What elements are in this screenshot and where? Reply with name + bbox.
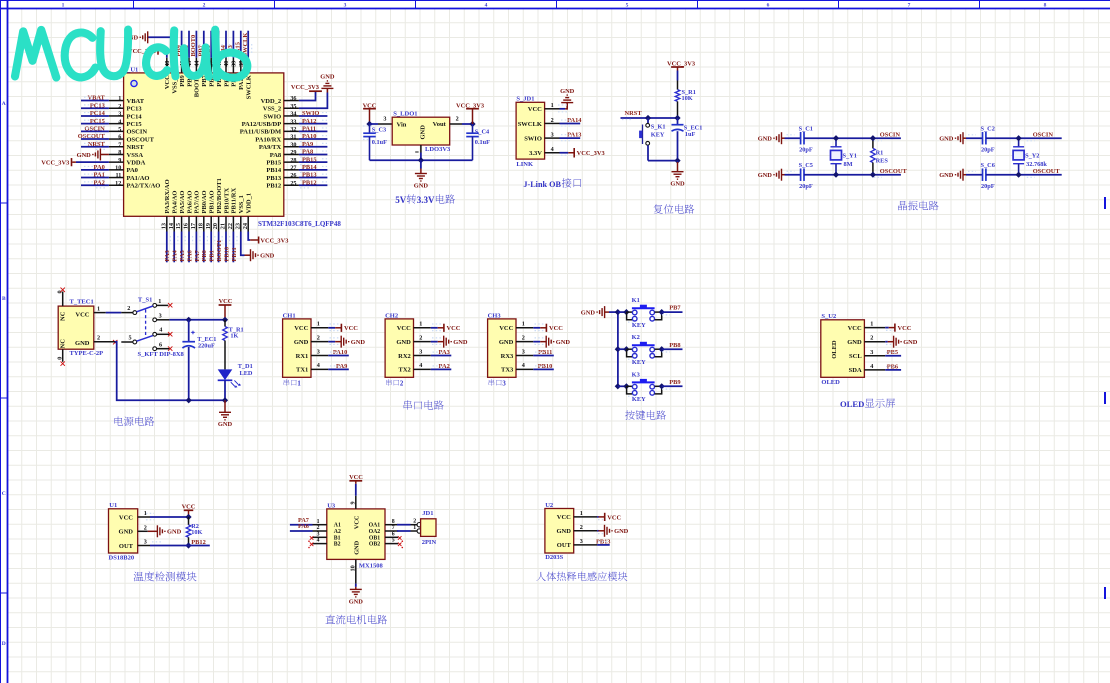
svg-text:PA12: PA12	[302, 118, 316, 125]
svg-text:6: 6	[767, 2, 770, 8]
svg-text:PA0: PA0	[127, 167, 138, 174]
svg-text:1: 1	[522, 321, 525, 328]
svg-text:30: 30	[290, 141, 296, 148]
svg-text:7: 7	[118, 141, 121, 148]
svg-text:CH1: CH1	[283, 312, 296, 319]
svg-text:4: 4	[551, 146, 554, 153]
svg-text:3: 3	[502, 380, 506, 387]
svg-text:OSCOUT: OSCOUT	[127, 136, 155, 143]
svg-text:GND: GND	[939, 136, 954, 143]
svg-text:OLED: OLED	[840, 399, 864, 409]
svg-text:35: 35	[290, 103, 296, 110]
svg-text:10: 10	[349, 565, 356, 571]
svg-text:VCC_3V3: VCC_3V3	[291, 84, 319, 91]
svg-text:39: 39	[231, 61, 238, 67]
svg-text:4: 4	[419, 362, 422, 369]
svg-text:PA12/USB/DP: PA12/USB/DP	[242, 121, 282, 128]
svg-text:BOOT1: BOOT1	[216, 240, 223, 262]
svg-text:220uF: 220uF	[198, 343, 215, 350]
svg-text:10K: 10K	[682, 95, 693, 102]
svg-text:16: 16	[183, 223, 190, 229]
svg-text:DS18B20: DS18B20	[109, 554, 135, 561]
svg-text:GND: GND	[396, 339, 411, 346]
svg-text:S_JD1: S_JD1	[516, 95, 534, 102]
svg-text:VCC: VCC	[182, 503, 196, 510]
svg-text:S_C4: S_C4	[475, 129, 490, 136]
svg-text:PA11: PA11	[302, 125, 316, 132]
svg-text:PB6: PB6	[887, 363, 899, 370]
svg-text:A1: A1	[334, 523, 341, 529]
svg-text:B2: B2	[334, 542, 341, 548]
svg-text:OUT: OUT	[119, 543, 134, 550]
svg-text:PA5: PA5	[179, 250, 186, 261]
svg-text:NRST: NRST	[88, 141, 106, 148]
svg-text:D203S: D203S	[545, 554, 563, 561]
svg-text:PA1/AO: PA1/AO	[127, 175, 150, 182]
svg-text:20pF: 20pF	[981, 146, 995, 153]
svg-text:GND: GND	[499, 339, 514, 346]
svg-text:21: 21	[220, 223, 227, 229]
svg-text:0: 0	[56, 357, 63, 360]
svg-text:44: 44	[194, 61, 201, 67]
svg-text:PB14: PB14	[302, 164, 317, 171]
svg-text:OSCOUT: OSCOUT	[880, 168, 908, 175]
svg-text:9: 9	[349, 501, 356, 504]
svg-text:6: 6	[159, 341, 162, 348]
svg-text:SWCLK: SWCLK	[246, 75, 253, 99]
svg-text:24: 24	[242, 223, 249, 229]
svg-text:NRST: NRST	[127, 144, 145, 151]
svg-text:3: 3	[317, 348, 320, 355]
svg-text:LED: LED	[240, 370, 253, 377]
svg-text:4: 4	[317, 538, 320, 544]
svg-text:5: 5	[392, 538, 395, 544]
svg-text:U3: U3	[327, 502, 336, 509]
svg-text:1: 1	[580, 510, 583, 517]
svg-text:GND: GND	[670, 181, 685, 188]
svg-text:T_S1: T_S1	[138, 296, 152, 303]
svg-text:GND: GND	[294, 339, 309, 346]
svg-text:S_Y1: S_Y1	[843, 153, 857, 160]
svg-text:12: 12	[115, 180, 121, 187]
svg-text:1uF: 1uF	[685, 131, 696, 138]
svg-text:1K: 1K	[230, 332, 238, 339]
svg-text:TYPE-C-2P: TYPE-C-2P	[70, 350, 104, 357]
svg-text:3: 3	[551, 132, 554, 139]
svg-text:10K: 10K	[191, 529, 202, 536]
svg-text:SWIO: SWIO	[263, 113, 281, 120]
svg-text:PA3/RX/AO: PA3/RX/AO	[164, 179, 171, 213]
svg-text:26: 26	[290, 172, 296, 179]
svg-text:17: 17	[190, 223, 197, 229]
svg-text:PB12: PB12	[302, 179, 317, 186]
svg-text:OSCIN: OSCIN	[127, 129, 148, 136]
svg-text:VBAT: VBAT	[88, 95, 106, 102]
svg-text:A: A	[2, 101, 6, 107]
svg-text:KEY: KEY	[632, 396, 646, 403]
svg-text:2: 2	[419, 334, 422, 341]
svg-text:SWIO: SWIO	[524, 135, 542, 142]
svg-text:S_LDO1: S_LDO1	[393, 110, 417, 117]
svg-text:GND: GND	[349, 598, 364, 605]
svg-text:GND: GND	[847, 339, 862, 346]
svg-text:PA5/AO: PA5/AO	[179, 191, 186, 214]
svg-text:GND: GND	[167, 529, 182, 536]
svg-text:KEY: KEY	[632, 359, 646, 366]
svg-text:KEY: KEY	[632, 322, 646, 329]
svg-text:GND: GND	[453, 339, 468, 346]
svg-text:1: 1	[413, 525, 416, 531]
svg-text:PA4/AO: PA4/AO	[172, 191, 179, 214]
svg-text:GND: GND	[351, 339, 366, 346]
svg-text:NRST: NRST	[625, 110, 643, 117]
svg-text:2: 2	[870, 335, 873, 342]
svg-text:2: 2	[400, 380, 404, 387]
svg-text:GND: GND	[581, 309, 596, 316]
svg-text:PA4: PA4	[172, 249, 179, 261]
svg-text:0.1uF: 0.1uF	[372, 139, 387, 146]
svg-text:1: 1	[870, 321, 873, 328]
svg-text:GND: GND	[556, 528, 571, 535]
svg-text:PB7: PB7	[669, 305, 681, 312]
svg-text:7: 7	[908, 2, 911, 8]
svg-text:2: 2	[97, 335, 100, 342]
svg-text:LDO3V3: LDO3V3	[425, 146, 451, 153]
svg-text:3: 3	[383, 116, 386, 123]
svg-text:5: 5	[626, 2, 629, 8]
svg-text:25: 25	[290, 180, 296, 187]
svg-text:GND: GND	[556, 339, 571, 346]
svg-text:OSCIN: OSCIN	[880, 131, 901, 138]
svg-text:PB8: PB8	[669, 342, 680, 349]
svg-text:J-Link OB: J-Link OB	[523, 180, 561, 189]
svg-text:VCC: VCC	[353, 515, 360, 529]
svg-text:8: 8	[1044, 2, 1047, 8]
svg-text:PB11/RX: PB11/RX	[231, 188, 238, 214]
svg-text:36: 36	[290, 95, 296, 102]
svg-text:S_C5: S_C5	[799, 162, 813, 169]
svg-text:S_Y2: S_Y2	[1025, 153, 1039, 160]
svg-text:2: 2	[127, 305, 130, 312]
svg-text:VSS_1: VSS_1	[238, 195, 245, 213]
svg-text:PA6: PA6	[298, 523, 309, 530]
svg-text:RX2: RX2	[398, 353, 411, 360]
svg-text:3.3V: 3.3V	[417, 195, 435, 205]
svg-text:40: 40	[223, 61, 230, 67]
svg-text:VCC: VCC	[349, 474, 363, 481]
svg-text:VCC: VCC	[848, 325, 862, 332]
svg-text:R1: R1	[876, 150, 884, 157]
svg-text:GND: GND	[939, 172, 954, 179]
svg-text:28: 28	[290, 157, 296, 164]
svg-text:PA7: PA7	[194, 249, 201, 261]
svg-text:1: 1	[317, 321, 320, 328]
svg-text:LINK: LINK	[516, 161, 533, 168]
svg-text:PC14: PC14	[127, 113, 143, 120]
svg-text:VCC: VCC	[75, 312, 89, 319]
svg-text:SWCLK: SWCLK	[518, 121, 542, 128]
svg-text:S_K1: S_K1	[651, 124, 666, 131]
svg-text:GND: GND	[419, 125, 426, 140]
svg-text:VCC: VCC	[119, 514, 133, 521]
svg-text:4: 4	[159, 326, 162, 333]
svg-text:PC15: PC15	[90, 118, 105, 125]
svg-text:PA10: PA10	[302, 133, 316, 140]
svg-text:PA6/AO: PA6/AO	[186, 191, 193, 214]
svg-text:GND: GND	[77, 152, 92, 159]
svg-text:Vin: Vin	[397, 121, 407, 128]
svg-text:VCC: VCC	[344, 325, 358, 332]
svg-text:32: 32	[290, 126, 296, 133]
svg-text:PB10/TX: PB10/TX	[223, 188, 230, 214]
svg-text:PC15: PC15	[127, 121, 143, 128]
svg-text:PA8: PA8	[302, 149, 313, 156]
svg-text:TX1: TX1	[296, 367, 308, 374]
svg-text:PA11/USB/DM: PA11/USB/DM	[240, 129, 281, 136]
svg-text:S_C3: S_C3	[372, 126, 386, 133]
svg-text:PC14: PC14	[90, 110, 106, 117]
svg-text:OA2: OA2	[369, 529, 381, 535]
svg-text:KEY: KEY	[651, 132, 665, 139]
svg-text:22: 22	[227, 223, 234, 229]
svg-text:U1: U1	[109, 502, 117, 509]
svg-text:OB2: OB2	[369, 542, 380, 548]
svg-text:BOOT0: BOOT0	[190, 35, 197, 57]
svg-text:VCC: VCC	[294, 325, 308, 332]
svg-text:2: 2	[317, 334, 320, 341]
svg-text:VCC: VCC	[549, 325, 563, 332]
svg-text:S_C1: S_C1	[799, 126, 813, 133]
svg-text:PA2: PA2	[94, 179, 105, 186]
svg-text:PB15: PB15	[266, 159, 282, 166]
svg-text:D: D	[2, 641, 6, 647]
svg-text:PA9/TX: PA9/TX	[259, 144, 282, 151]
svg-text:1: 1	[158, 298, 161, 305]
svg-text:PA3: PA3	[164, 250, 171, 261]
svg-text:8: 8	[392, 519, 395, 525]
svg-text:8: 8	[118, 149, 121, 156]
svg-text:OA1: OA1	[369, 523, 381, 529]
svg-text:VDD_2: VDD_2	[261, 98, 282, 105]
svg-text:3: 3	[159, 313, 162, 320]
svg-text:TX2: TX2	[399, 367, 411, 374]
svg-text:13: 13	[160, 223, 167, 229]
svg-text:T_TEC1: T_TEC1	[70, 298, 94, 305]
svg-text:B: B	[2, 296, 6, 302]
svg-text:K1: K1	[632, 297, 640, 304]
svg-text:PC13: PC13	[90, 102, 105, 109]
svg-text:4: 4	[870, 363, 873, 370]
svg-text:K3: K3	[632, 371, 640, 378]
svg-text:OUT: OUT	[557, 542, 572, 549]
svg-text:PB9: PB9	[179, 74, 186, 86]
svg-text:2: 2	[580, 524, 583, 531]
svg-text:VCC: VCC	[528, 106, 542, 113]
svg-text:C: C	[2, 491, 6, 497]
svg-text:20: 20	[212, 223, 219, 229]
svg-text:VSSA: VSSA	[127, 152, 144, 159]
svg-text:JD1: JD1	[422, 510, 433, 517]
svg-text:PA8: PA8	[270, 152, 282, 159]
svg-text:S_KFT DIP-8X8: S_KFT DIP-8X8	[138, 351, 185, 358]
svg-text:3: 3	[419, 348, 422, 355]
svg-text:TX3: TX3	[501, 367, 514, 374]
svg-text:RES: RES	[876, 157, 889, 164]
svg-text:33: 33	[290, 118, 296, 125]
svg-text:5: 5	[129, 335, 132, 342]
svg-text:S_C2: S_C2	[981, 126, 995, 133]
svg-text:PA2/TX/AO: PA2/TX/AO	[127, 183, 161, 190]
svg-text:1: 1	[419, 321, 422, 328]
svg-text:PA6: PA6	[186, 249, 193, 261]
svg-text:11: 11	[115, 172, 121, 179]
svg-text:PA0: PA0	[94, 164, 105, 171]
svg-text:10: 10	[115, 164, 121, 171]
svg-text:3: 3	[870, 349, 873, 356]
svg-text:14: 14	[168, 223, 175, 229]
svg-text:S_C6: S_C6	[981, 162, 995, 169]
svg-text:VCC: VCC	[607, 514, 621, 521]
svg-text:2: 2	[144, 525, 147, 532]
svg-text:MX1508: MX1508	[359, 563, 384, 570]
svg-text:PA7/AO: PA7/AO	[194, 191, 201, 214]
svg-text:GND: GND	[320, 74, 335, 81]
svg-text:20pF: 20pF	[799, 146, 813, 153]
svg-text:1: 1	[97, 305, 100, 312]
svg-text:GND: GND	[758, 136, 773, 143]
svg-text:GND: GND	[119, 529, 134, 536]
svg-text:PB2/BOOT1: PB2/BOOT1	[216, 178, 223, 213]
svg-text:GND: GND	[758, 172, 773, 179]
svg-text:3.3V: 3.3V	[529, 150, 542, 157]
svg-text:PB1/AO: PB1/AO	[209, 190, 216, 213]
svg-text:PB14: PB14	[266, 167, 282, 174]
svg-text:1: 1	[317, 519, 320, 525]
svg-text:CH3: CH3	[488, 312, 502, 319]
svg-text:0.1uF: 0.1uF	[475, 139, 490, 146]
svg-text:PB9: PB9	[669, 379, 680, 386]
svg-text:GND: GND	[614, 528, 629, 535]
svg-text:VCC: VCC	[898, 325, 912, 332]
svg-text:GND: GND	[260, 253, 275, 260]
svg-text:2: 2	[203, 2, 206, 8]
svg-text:2: 2	[551, 117, 554, 124]
svg-text:23: 23	[234, 223, 241, 229]
svg-text:PB11: PB11	[538, 349, 552, 356]
svg-text:5V: 5V	[395, 195, 407, 205]
svg-text:3: 3	[118, 111, 121, 118]
svg-text:A2: A2	[334, 529, 341, 535]
svg-text:Vout: Vout	[433, 121, 447, 128]
svg-text:7: 7	[392, 525, 395, 531]
svg-text:OSCOUT: OSCOUT	[78, 133, 106, 140]
svg-text:GND: GND	[560, 88, 575, 95]
svg-text:RX3: RX3	[501, 353, 514, 360]
svg-text:K2: K2	[632, 334, 640, 341]
svg-text:2PIN: 2PIN	[422, 539, 437, 546]
svg-text:2: 2	[456, 116, 459, 123]
svg-text:OSCIN: OSCIN	[1033, 131, 1054, 138]
svg-text:SCL: SCL	[849, 353, 862, 360]
svg-text:4: 4	[118, 118, 121, 125]
svg-text:GND: GND	[414, 182, 429, 189]
svg-text:3: 3	[580, 538, 583, 545]
svg-text:PB12: PB12	[266, 183, 281, 190]
svg-text:3: 3	[317, 531, 320, 537]
svg-text:2: 2	[413, 518, 416, 524]
svg-text:STM32F103C8T6_LQFP48: STM32F103C8T6_LQFP48	[258, 220, 341, 228]
svg-text:PB0: PB0	[201, 250, 208, 261]
svg-text:SWIO: SWIO	[302, 110, 319, 117]
svg-text:18: 18	[197, 223, 204, 229]
svg-text:OSCOUT: OSCOUT	[1033, 168, 1061, 175]
svg-text:VCC: VCC	[397, 325, 411, 332]
svg-text:VCC: VCC	[557, 514, 571, 521]
svg-text:VDDA: VDDA	[127, 159, 146, 166]
svg-text:4: 4	[522, 362, 525, 369]
svg-text:PB0/AO: PB0/AO	[201, 190, 208, 213]
svg-text:9: 9	[118, 157, 121, 164]
svg-text:PB13: PB13	[302, 172, 317, 179]
svg-text:6: 6	[118, 134, 121, 141]
svg-text:2: 2	[522, 334, 525, 341]
svg-text:4: 4	[317, 362, 320, 369]
svg-text:PB12: PB12	[191, 539, 206, 546]
svg-text:CH2: CH2	[385, 312, 398, 319]
svg-text:1: 1	[118, 95, 121, 102]
svg-text:4: 4	[485, 2, 488, 8]
svg-text:8M: 8M	[844, 161, 853, 168]
svg-text:PB10: PB10	[223, 247, 230, 262]
svg-text:20pF: 20pF	[981, 183, 995, 190]
svg-text:34: 34	[290, 111, 296, 118]
svg-text:2: 2	[118, 103, 121, 110]
svg-text:20pF: 20pF	[799, 183, 813, 190]
svg-text:19: 19	[205, 223, 212, 229]
svg-text:B1: B1	[334, 535, 341, 541]
svg-text:VCC: VCC	[447, 325, 461, 332]
svg-text:VCC: VCC	[499, 325, 513, 332]
svg-text:15: 15	[175, 223, 182, 229]
svg-text:PA9: PA9	[302, 141, 313, 148]
svg-text:1: 1	[297, 380, 301, 387]
svg-text:29: 29	[290, 149, 296, 156]
svg-text:OB1: OB1	[369, 535, 380, 541]
svg-text:GND: GND	[218, 421, 233, 428]
svg-text:27: 27	[290, 164, 296, 171]
svg-text:OLED: OLED	[821, 379, 840, 386]
svg-text:1: 1	[551, 102, 554, 109]
svg-text:2: 2	[317, 525, 320, 531]
svg-text:PA1: PA1	[94, 172, 105, 179]
svg-text:31: 31	[290, 134, 296, 141]
svg-text:PB1: PB1	[209, 250, 216, 261]
svg-text:3: 3	[522, 348, 525, 355]
svg-text:5: 5	[118, 126, 121, 133]
svg-text:NC: NC	[60, 339, 67, 349]
svg-text:1: 1	[62, 2, 65, 8]
svg-text:GND: GND	[75, 340, 90, 347]
svg-text:3: 3	[144, 539, 147, 546]
svg-text:PC13: PC13	[127, 106, 143, 113]
svg-text:VSS_2: VSS_2	[263, 106, 281, 113]
svg-text:6: 6	[392, 531, 395, 537]
svg-text:VBAT: VBAT	[127, 98, 145, 105]
svg-text:PB13: PB13	[266, 175, 282, 182]
svg-text:PB11: PB11	[231, 247, 238, 261]
svg-text:PA10/RX: PA10/RX	[255, 136, 281, 143]
svg-text:NC: NC	[60, 311, 67, 321]
